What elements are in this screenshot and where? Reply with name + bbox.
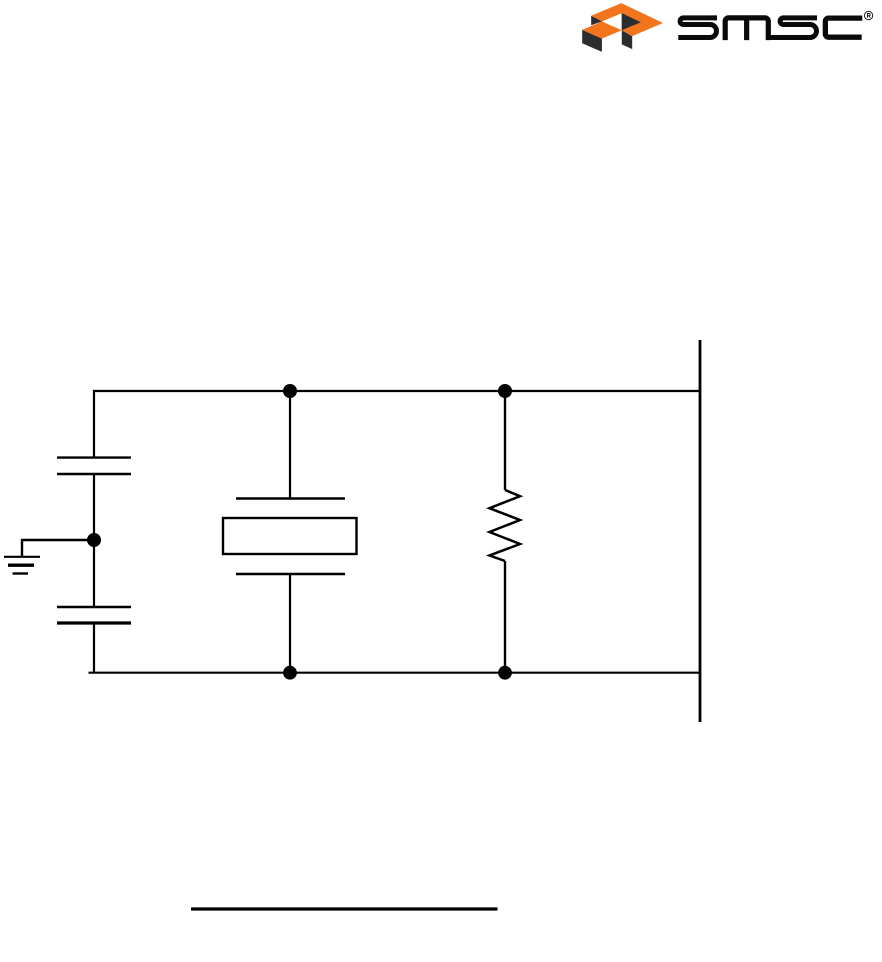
- SMSC logo icon: dark center triangle side face: [622, 13, 641, 30]
- capacitor C2 top plate: [57, 606, 131, 608]
- wire: crystal to bottom rail: [289, 574, 291, 673]
- node: junction dot bottom rail / resistor: [498, 666, 512, 680]
- SMSC wordmark letter s: [766, 18, 817, 38]
- SMSC logo icon: dark lower-left front face: [582, 30, 602, 52]
- SMSC wordmark letter m: [725, 18, 768, 40]
- horizontal rule: [191, 907, 498, 910]
- wire: top rail from left corner to IC pin: [94, 391, 700, 458]
- node: junction dot top rail / crystal: [283, 384, 297, 398]
- crystal Y1 top electrode: [236, 497, 345, 499]
- wire: resistor to bottom rail: [504, 561, 506, 673]
- wire: top rail to crystal: [289, 391, 291, 499]
- crystal Y1 body: [223, 518, 357, 554]
- SMSC logo icon: orange lower-left rhombus face: [582, 22, 622, 39]
- wire: IC boundary pin line: [699, 340, 702, 722]
- wire: bottom rail: [89, 672, 701, 674]
- wire: C2 to bottom rail: [93, 623, 95, 673]
- resistor R1 zigzag: [490, 490, 521, 561]
- SMSC logo icon: dark small left side face: [591, 16, 602, 25]
- wire: top rail to resistor: [504, 391, 506, 490]
- node: junction dot at C1/C2/ground: [87, 533, 101, 547]
- registered trademark symbol: [864, 11, 872, 19]
- capacitor C1 bottom plate: [57, 473, 131, 475]
- wire: C1 to center node: [93, 474, 95, 607]
- ground symbol bar 3: [13, 572, 29, 574]
- SMSC wordmark letter s: [678, 18, 717, 38]
- ground symbol bar 1: [4, 556, 40, 558]
- ground symbol bar 2: [8, 564, 34, 567]
- SMSC logo icon: dark center front strip face: [622, 30, 632, 49]
- node: junction dot bottom rail / crystal: [283, 666, 297, 680]
- node: junction dot top rail / resistor: [498, 384, 512, 398]
- wire: ground branch: [22, 540, 94, 557]
- SMSC wordmark letter c: [825, 18, 862, 37]
- SMSC logo icon: orange arrow top band: [591, 3, 663, 36]
- capacitor C1 top plate: [57, 456, 131, 458]
- crystal Y1 bottom electrode: [236, 573, 345, 575]
- capacitor C2 bottom plate: [57, 621, 131, 624]
